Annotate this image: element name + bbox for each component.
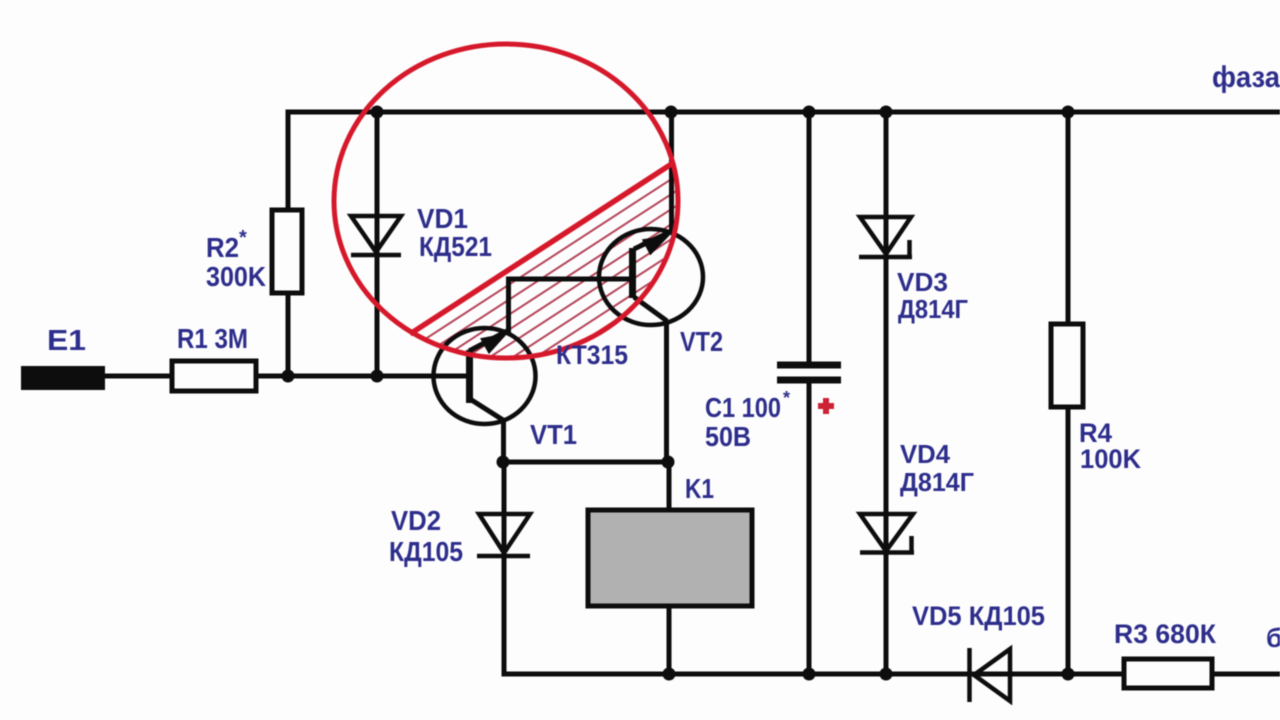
svg-text:R3 680К: R3 680К [1114,619,1217,649]
svg-text:КТ315: КТ315 [556,340,628,370]
svg-text:VD4: VD4 [900,439,951,469]
svg-text:R1 3M: R1 3M [177,323,248,354]
svg-text:Д814Г: Д814Г [898,294,968,324]
svg-text:КД521: КД521 [419,231,492,262]
svg-text:VD3: VD3 [897,267,948,297]
svg-text:VD5 КД105: VD5 КД105 [912,601,1045,631]
svg-text:E1: E1 [47,325,86,357]
svg-text:VD2: VD2 [391,505,441,536]
svg-text:K1: K1 [685,473,714,504]
svg-text:VT2: VT2 [680,326,723,357]
svg-text:КД105: КД105 [389,536,463,567]
svg-text:R2: R2 [206,232,239,263]
svg-text:б: б [1266,623,1280,653]
svg-text:C1 100: C1 100 [705,392,781,423]
svg-text:100K: 100K [1080,444,1141,474]
svg-text:фаза: фаза [1212,61,1280,94]
svg-text:50В: 50В [705,421,751,452]
svg-text:VT1: VT1 [530,419,577,450]
svg-text:Д814Г: Д814Г [900,467,974,497]
svg-text:*: * [239,227,247,249]
svg-text:300K: 300K [206,261,266,292]
svg-text:VD1: VD1 [417,203,468,234]
svg-text:*: * [783,388,790,408]
